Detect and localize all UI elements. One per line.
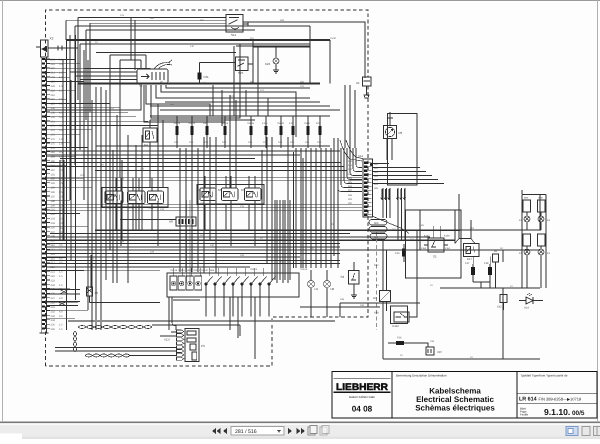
loom horizontal upper xyxy=(78,325,152,327)
svg-text:305: 305 xyxy=(348,181,353,184)
wire rows 150s xyxy=(46,146,340,159)
svg-text:233: 233 xyxy=(240,254,245,257)
svg-text:F28: F28 xyxy=(484,262,489,265)
svg-text:218: 218 xyxy=(51,89,56,92)
svg-text:F105: F105 xyxy=(262,122,268,125)
title block description text xyxy=(415,387,495,413)
svg-text:504: 504 xyxy=(470,227,475,230)
wire right verticals added xyxy=(417,190,540,288)
svg-text:129: 129 xyxy=(51,103,56,106)
module P8 enclosure xyxy=(388,114,418,186)
svg-text:130: 130 xyxy=(190,45,195,48)
wire heavy pair risers xyxy=(96,52,236,54)
wire gray pair mid xyxy=(186,200,188,283)
svg-text:MW: MW xyxy=(374,222,379,225)
wire heavy gray bus xyxy=(68,320,335,322)
wire F21 to S75 xyxy=(200,62,236,64)
toolbar nav prev button xyxy=(223,428,227,434)
svg-text:LR 614: LR 614 xyxy=(519,396,537,402)
svg-text:F/N 389-6358—▶10719: F/N 389-6358—▶10719 xyxy=(539,396,582,401)
connector X97 xyxy=(420,343,434,355)
svg-text:504: 504 xyxy=(200,234,205,237)
svg-text:0.5: 0.5 xyxy=(59,58,63,61)
svg-text:216: 216 xyxy=(51,94,56,97)
svg-text:206: 206 xyxy=(51,58,56,61)
svg-text:201: 201 xyxy=(51,209,56,212)
svg-text:K24: K24 xyxy=(265,62,271,66)
svg-text:223: 223 xyxy=(51,279,56,282)
svg-text:172: 172 xyxy=(51,129,56,132)
switch S2 xyxy=(424,238,448,252)
resistor BR6 lower left xyxy=(523,234,531,246)
wire B5 drop xyxy=(495,262,497,288)
svg-text:0.5: 0.5 xyxy=(59,151,63,154)
wire P8 top xyxy=(389,118,391,126)
svg-text:306: 306 xyxy=(374,187,379,190)
svg-text:1.5: 1.5 xyxy=(59,209,63,212)
svg-text:00/5: 00/5 xyxy=(572,410,585,417)
loom labels below X14 xyxy=(369,220,387,240)
X14 left labels xyxy=(348,160,353,205)
contact row box xyxy=(167,273,299,297)
lamp E3 lower left xyxy=(524,249,530,255)
connector X14 xyxy=(363,159,373,217)
svg-text:175: 175 xyxy=(51,142,56,145)
svg-text:168: 168 xyxy=(51,107,56,110)
switch S75 xyxy=(236,57,254,71)
wire S1 left elbows xyxy=(70,69,150,80)
gauge P8 xyxy=(384,126,397,139)
svg-text:0.5: 0.5 xyxy=(59,98,63,101)
svg-text:K112: K112 xyxy=(393,324,400,328)
svg-text:152: 152 xyxy=(410,238,415,241)
contact row switches xyxy=(205,277,276,298)
switch X5 xyxy=(87,255,161,303)
wire bus lower to X14 xyxy=(46,177,362,211)
loom vertical xyxy=(73,331,75,352)
svg-text:1.0: 1.0 xyxy=(59,89,63,92)
svg-text:X32: X32 xyxy=(497,306,502,309)
Liebherr logo xyxy=(334,379,391,393)
wire X14 outputs right xyxy=(373,164,444,241)
svg-text:4.0: 4.0 xyxy=(59,310,63,313)
lamp E3 upper left xyxy=(524,216,530,222)
svg-text:X2: X2 xyxy=(50,37,54,41)
svg-text:231: 231 xyxy=(51,306,56,309)
svg-text:7H613: 7H613 xyxy=(250,268,258,271)
indicator K24 xyxy=(273,47,279,73)
svg-text:158: 158 xyxy=(51,111,56,114)
svg-text:1.5: 1.5 xyxy=(59,182,63,185)
svg-text:1.5: 1.5 xyxy=(59,218,63,221)
wire K17 top hat xyxy=(455,239,475,244)
svg-text:P9: P9 xyxy=(201,344,205,348)
fuse row 7H616 group xyxy=(173,116,322,148)
wire mid verticals added xyxy=(204,85,355,283)
svg-text:501: 501 xyxy=(51,120,56,123)
svg-text:304: 304 xyxy=(348,177,353,180)
svg-text:X97: X97 xyxy=(437,350,442,354)
svg-text:303: 303 xyxy=(348,173,353,176)
toolbar nav next button xyxy=(288,428,292,434)
svg-text:04 08: 04 08 xyxy=(352,405,373,414)
lamp E3 upper right xyxy=(538,216,544,222)
svg-text:F10: F10 xyxy=(289,122,294,125)
fuse F56 xyxy=(388,341,420,345)
wire end ticks below X14 xyxy=(381,189,406,200)
wire number labels scatter xyxy=(60,14,513,359)
loom horizontal lower xyxy=(85,354,130,356)
svg-text:1.5: 1.5 xyxy=(59,271,63,274)
svg-text:204: 204 xyxy=(140,168,145,171)
wire right big loop xyxy=(416,288,418,303)
lamp H8 xyxy=(324,281,331,288)
svg-text:1.0: 1.0 xyxy=(59,222,63,225)
lamp cluster enclosure xyxy=(522,195,546,289)
wire S1 pins down elbows xyxy=(46,85,310,137)
wire X117 drop xyxy=(172,297,176,330)
svg-text:MW: MW xyxy=(374,229,379,232)
svg-text:Benennung Description Déno: Benennung Description Dénomination xyxy=(396,373,447,377)
terminal strip labels xyxy=(51,58,64,331)
svg-text:7H618: 7H618 xyxy=(300,268,308,271)
svg-text:301: 301 xyxy=(348,164,353,167)
svg-text:0.5: 0.5 xyxy=(59,191,63,194)
svg-text:Datum Edition Date: Datum Edition Date xyxy=(349,395,375,399)
svg-text:155: 155 xyxy=(51,116,56,119)
svg-text:122: 122 xyxy=(260,89,265,92)
svg-text:9.1.10.: 9.1.10. xyxy=(544,407,570,417)
svg-text:1.5: 1.5 xyxy=(59,284,63,287)
title block type value xyxy=(517,394,597,404)
svg-text:215: 215 xyxy=(240,205,245,208)
wire A8 feeds xyxy=(120,219,176,221)
svg-text:302: 302 xyxy=(348,168,353,171)
svg-text:10A: 10A xyxy=(305,141,310,144)
svg-text:191: 191 xyxy=(51,173,56,176)
svg-text:1.0: 1.0 xyxy=(59,169,63,172)
wire bottom right horizontals xyxy=(173,300,420,317)
svg-text:S75: S75 xyxy=(238,71,244,75)
svg-text:506: 506 xyxy=(150,17,155,20)
svg-text:176: 176 xyxy=(51,138,56,141)
svg-text:K146: K146 xyxy=(444,235,450,238)
wire top right feeds xyxy=(236,45,310,47)
switch S3 xyxy=(349,262,360,298)
svg-text:7H619: 7H619 xyxy=(188,122,196,125)
resistor BR6 upper left xyxy=(523,200,531,212)
svg-text:211: 211 xyxy=(51,244,56,247)
terminal strip X2 pins xyxy=(40,57,50,333)
svg-text:207: 207 xyxy=(80,174,85,177)
wire upper verticals added xyxy=(110,44,246,178)
wire bus middle band xyxy=(46,230,540,270)
wire S11 to X1 xyxy=(243,22,365,66)
svg-text:221: 221 xyxy=(51,271,56,274)
svg-text:206: 206 xyxy=(51,67,56,70)
svg-text:S3: S3 xyxy=(341,275,345,279)
svg-text:228: 228 xyxy=(150,251,155,254)
svg-text:LIEBHERR: LIEBHERR xyxy=(336,382,388,393)
toolbar page view icons xyxy=(308,426,329,436)
X14 right labels xyxy=(374,163,379,190)
toolbar background xyxy=(0,423,600,439)
svg-text:7H616: 7H616 xyxy=(173,122,181,125)
wire band risers xyxy=(60,148,331,280)
svg-text:10A: 10A xyxy=(189,141,194,144)
switch S11 xyxy=(226,15,248,33)
svg-text:X160: X160 xyxy=(421,247,427,250)
svg-text:308: 308 xyxy=(348,194,353,197)
svg-text:300: 300 xyxy=(348,160,353,163)
connector X2 xyxy=(41,40,49,57)
lamp H1 xyxy=(308,281,315,288)
svg-text:151: 151 xyxy=(392,228,397,231)
svg-text:224: 224 xyxy=(51,284,56,287)
svg-text:7H635: 7H635 xyxy=(247,122,255,125)
svg-text:0.5: 0.5 xyxy=(59,129,63,132)
svg-text:X117: X117 xyxy=(164,338,171,342)
svg-text:219: 219 xyxy=(51,266,56,269)
svg-text:158: 158 xyxy=(430,340,435,343)
svg-text:307: 307 xyxy=(348,189,353,192)
svg-text:F56: F56 xyxy=(397,337,402,340)
wire relay row verticals xyxy=(110,176,255,246)
twisted pair upper xyxy=(46,290,80,295)
svg-text:K4: K4 xyxy=(144,143,148,147)
svg-text:1.0: 1.0 xyxy=(59,138,63,141)
svg-text:F21: F21 xyxy=(204,75,210,79)
wire bus to X14 xyxy=(46,163,347,171)
svg-text:505: 505 xyxy=(420,224,425,227)
wire K17 feeds xyxy=(433,226,490,264)
connector X117 xyxy=(150,330,184,360)
lamp E3 lower right xyxy=(538,249,544,255)
svg-text:501: 501 xyxy=(51,76,56,79)
wire loom links xyxy=(55,325,240,356)
svg-text:F27: F27 xyxy=(465,262,470,265)
svg-text:1.5: 1.5 xyxy=(59,328,63,331)
shielded cable dash xyxy=(376,232,378,330)
svg-text:128: 128 xyxy=(170,103,175,106)
relay K17 xyxy=(464,244,480,257)
svg-text:10A: 10A xyxy=(317,141,322,144)
svg-text:295: 295 xyxy=(51,63,56,66)
svg-text:K17: K17 xyxy=(467,257,472,261)
wire bottom right bus xyxy=(383,288,540,359)
svg-text:235: 235 xyxy=(51,324,56,327)
wire fuse feeds top xyxy=(150,115,330,117)
svg-text:4.0: 4.0 xyxy=(59,297,63,300)
title block page labels xyxy=(520,407,529,417)
dashed cab boundary xyxy=(46,10,369,366)
svg-text:208: 208 xyxy=(120,178,125,181)
svg-text:H14: H14 xyxy=(524,307,529,310)
svg-text:196: 196 xyxy=(51,191,56,194)
svg-text:0.5: 0.5 xyxy=(59,315,63,318)
wire upper-right runs xyxy=(0,0,1,1)
led H14 xyxy=(519,293,543,304)
wire fuse area horizontals xyxy=(150,98,330,146)
svg-text:F95: F95 xyxy=(316,122,321,125)
fuse F28 xyxy=(488,264,492,282)
relay group enclosure left xyxy=(102,188,168,208)
wire right feeds xyxy=(344,210,540,250)
svg-text:K145: K145 xyxy=(424,235,430,238)
svg-text:0.5: 0.5 xyxy=(59,116,63,119)
svg-text:227: 227 xyxy=(51,297,56,300)
svg-text:197: 197 xyxy=(51,195,56,198)
svg-text:229: 229 xyxy=(120,241,125,244)
svg-text:X162: X162 xyxy=(445,247,451,250)
svg-text:229: 229 xyxy=(51,85,56,88)
contact row relays xyxy=(170,276,202,290)
svg-text:300: 300 xyxy=(348,202,353,205)
svg-text:1.0: 1.0 xyxy=(59,142,63,145)
relay K8 xyxy=(222,188,239,201)
toolbar right window icons xyxy=(566,427,600,436)
svg-text:1.0: 1.0 xyxy=(59,195,63,198)
svg-text:306: 306 xyxy=(348,185,353,188)
svg-text:7H640: 7H640 xyxy=(277,122,285,125)
svg-text:X98: X98 xyxy=(374,312,379,315)
wire central drops xyxy=(213,40,258,188)
svg-text:Schèmas électriques: Schèmas électriques xyxy=(415,404,495,413)
svg-text:K2: K2 xyxy=(197,188,201,192)
svg-text:218: 218 xyxy=(160,208,165,211)
svg-text:K8: K8 xyxy=(218,188,222,192)
connector X32 xyxy=(500,295,507,311)
svg-text:0.5: 0.5 xyxy=(59,63,63,66)
svg-text:X47: X47 xyxy=(374,264,379,267)
svg-text:204: 204 xyxy=(51,222,56,225)
relay K98 xyxy=(105,191,123,204)
connector A8 xyxy=(176,217,196,226)
svg-text:7H66: 7H66 xyxy=(304,122,310,125)
svg-text:216: 216 xyxy=(200,202,205,205)
svg-text:171: 171 xyxy=(51,125,56,128)
svg-text:168: 168 xyxy=(340,298,345,301)
wire heavy bus 30a xyxy=(78,83,320,85)
relay K51 xyxy=(148,191,164,204)
svg-text:182: 182 xyxy=(51,151,56,154)
svg-text:214: 214 xyxy=(51,72,56,75)
svg-text:203: 203 xyxy=(51,218,56,221)
svg-text:309: 309 xyxy=(348,198,353,201)
wire U1 verticals xyxy=(374,240,387,343)
svg-text:125: 125 xyxy=(300,85,305,88)
svg-text:K51: K51 xyxy=(148,206,154,210)
svg-text:10A: 10A xyxy=(278,141,283,144)
wire U1 bottom run xyxy=(382,343,384,359)
svg-text:0.5: 0.5 xyxy=(59,244,63,247)
relay group enclosure right xyxy=(197,185,264,205)
svg-text:S2: S2 xyxy=(433,255,437,259)
svg-text:S11: S11 xyxy=(231,33,236,37)
svg-text:H8: H8 xyxy=(331,287,335,291)
svg-text:126: 126 xyxy=(110,107,115,110)
wire nest drops to S1 xyxy=(130,18,132,61)
wire K112 right xyxy=(409,303,417,317)
svg-text:B5: B5 xyxy=(494,250,498,253)
svg-text:0.5: 0.5 xyxy=(59,103,63,106)
svg-text:MS: MS xyxy=(374,236,378,239)
wire X14 sweep xyxy=(372,216,409,234)
toolbar nav first page button xyxy=(212,428,221,434)
relay K112 xyxy=(391,306,410,324)
svg-text:15/30: 15/30 xyxy=(330,37,337,40)
relay K3 xyxy=(245,188,262,201)
fuse F27 xyxy=(471,264,475,282)
svg-text:1.0: 1.0 xyxy=(59,85,63,88)
enclosure S2 zone xyxy=(406,210,462,278)
resistor BR6 upper right xyxy=(538,200,546,212)
svg-text:230: 230 xyxy=(210,244,215,247)
svg-text:202: 202 xyxy=(100,164,105,167)
svg-text:7H618 7H616 7H635 7H619 7H640: 7H618 7H616 7H635 7H619 7H640 7H66 xyxy=(170,269,215,272)
svg-text:H1: H1 xyxy=(315,287,319,291)
contact row feeds xyxy=(173,268,272,276)
wire bottom drops xyxy=(206,297,327,359)
svg-text:4.0: 4.0 xyxy=(59,111,63,114)
svg-text:0.5: 0.5 xyxy=(59,125,63,128)
svg-text:234: 234 xyxy=(51,319,56,322)
svg-text:121: 121 xyxy=(230,95,235,98)
svg-text:123: 123 xyxy=(120,14,125,17)
svg-text:P8: P8 xyxy=(399,131,403,135)
svg-text:X5: X5 xyxy=(95,291,99,295)
svg-text:A8: A8 xyxy=(169,220,173,224)
svg-text:232: 232 xyxy=(51,310,56,313)
svg-text:10A: 10A xyxy=(290,141,295,144)
svg-text:Typblatt Typerfrom Typer: Typblatt Typerfrom Typeris partir de xyxy=(521,373,568,377)
svg-text:281 / 516: 281 / 516 xyxy=(235,429,257,435)
svg-text:169: 169 xyxy=(360,304,365,307)
title block page number xyxy=(544,407,585,417)
connector X1 xyxy=(363,66,372,98)
svg-text:234: 234 xyxy=(90,258,95,261)
dc converter U1 xyxy=(380,291,391,302)
wire bus top nest xyxy=(66,18,300,201)
title block frame xyxy=(332,372,597,419)
twisted pair lower xyxy=(46,302,78,306)
svg-text:233: 233 xyxy=(51,315,56,318)
svg-text:193: 193 xyxy=(51,182,56,185)
svg-text:Feuille: Feuille xyxy=(520,413,529,417)
svg-text:505: 505 xyxy=(200,19,205,22)
svg-text:K3: K3 xyxy=(241,188,245,192)
svg-text:1.5: 1.5 xyxy=(59,72,63,75)
fuse F26 xyxy=(402,244,406,262)
viewer window border xyxy=(0,0,600,2)
wire S11 branch 26 xyxy=(243,25,310,27)
svg-text:F26: F26 xyxy=(395,252,400,255)
svg-text:187: 187 xyxy=(51,169,56,172)
svg-text:10A: 10A xyxy=(222,141,227,144)
module P9 xyxy=(185,329,199,362)
switch S1 ignition xyxy=(137,60,172,84)
svg-text:1.5: 1.5 xyxy=(59,324,63,327)
svg-text:222: 222 xyxy=(51,275,56,278)
wire lamp cluster stubs xyxy=(527,212,541,288)
sensor B5 xyxy=(493,254,499,262)
relay K97 xyxy=(128,191,146,204)
wire left comb xyxy=(47,60,158,319)
wire P8 bottom xyxy=(386,139,388,161)
toolbar page field xyxy=(231,427,284,436)
svg-text:5A: 5A xyxy=(204,82,207,85)
svg-text:236: 236 xyxy=(51,328,56,331)
